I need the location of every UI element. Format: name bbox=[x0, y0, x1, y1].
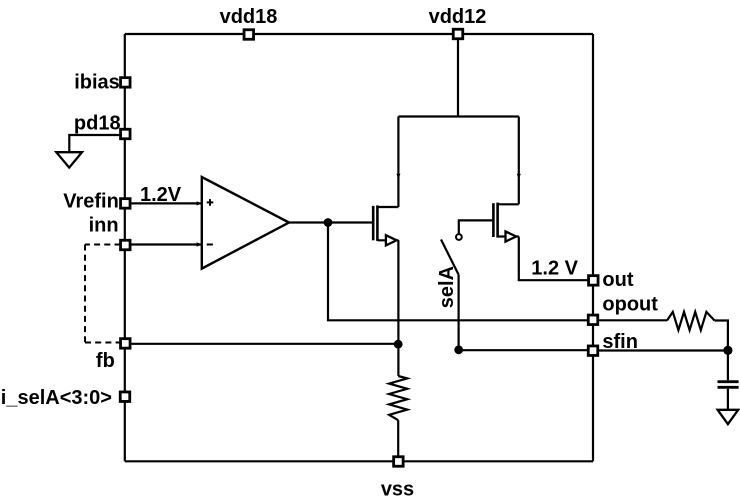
svg-text:fb: fb bbox=[96, 350, 115, 372]
wire R2 to RC node bbox=[715, 321, 728, 381]
pin vdd12 bbox=[453, 29, 463, 39]
wire inn to op-amp - bbox=[125, 243, 202, 245]
dashed feedback wire inn segment bbox=[85, 244, 121, 246]
pin fb bbox=[121, 339, 131, 349]
wire M1 source down to resistor bbox=[397, 240, 399, 376]
svg-text:selA: selA bbox=[436, 266, 458, 308]
wire R1 bottom to vss bbox=[397, 420, 399, 461]
wire top rail vdd18/vdd12 bbox=[125, 33, 593, 35]
wire mirror top rail bbox=[398, 115, 518, 117]
resistor R2 (horizontal) bbox=[667, 312, 715, 330]
pin Vrefin bbox=[121, 199, 131, 209]
wire opout pin to R2 bbox=[593, 319, 667, 321]
arrowhead at op-amp + input bbox=[197, 201, 202, 205]
wire sfin junction to sfin pin bbox=[459, 349, 593, 351]
pin vdd18 bbox=[244, 30, 254, 40]
wire fb pin to junction bbox=[125, 343, 398, 345]
svg-text:out: out bbox=[602, 269, 633, 291]
svg-text:vss: vss bbox=[381, 478, 414, 500]
op-amp U1 bbox=[202, 177, 289, 269]
M2 drain current arrowhead bbox=[517, 174, 521, 179]
svg-text:pd18: pd18 bbox=[74, 113, 121, 135]
node RC junction bbox=[723, 346, 732, 355]
transistor M1 (left NMOS) bbox=[373, 205, 398, 245]
wire op-amp output to opout pin bbox=[328, 223, 593, 321]
svg-text:i_selA<3:0>: i_selA<3:0> bbox=[1, 387, 112, 409]
svg-text:vdd18: vdd18 bbox=[220, 6, 278, 28]
dashed feedback wire vertical segment bbox=[84, 245, 86, 343]
node A op-amp output junction bbox=[324, 218, 333, 227]
resistor R1 (vertical) bbox=[389, 376, 407, 420]
switch selA blade bbox=[441, 240, 459, 275]
pin opout bbox=[588, 315, 598, 325]
wire M1 drain riser bbox=[397, 117, 399, 208]
svg-text:1.2V: 1.2V bbox=[140, 184, 182, 206]
pin pd18 bbox=[121, 129, 131, 139]
pin inn bbox=[121, 240, 131, 250]
wire C1 to ground bbox=[727, 389, 729, 410]
arrowhead at op-amp - input bbox=[197, 242, 202, 246]
wire switch to sfin junction bbox=[458, 275, 460, 350]
pin i_selA bbox=[120, 392, 130, 402]
pin ibias bbox=[121, 78, 131, 88]
ground symbol at C1 bbox=[718, 410, 739, 424]
svg-text:inn: inn bbox=[89, 215, 119, 237]
wire op-amp output to M1 gate bbox=[289, 221, 372, 223]
pin vss bbox=[394, 457, 404, 467]
wire Vrefin to op-amp + bbox=[125, 202, 202, 204]
svg-text:opout: opout bbox=[602, 294, 658, 316]
wire vdd12 stem bbox=[457, 34, 459, 117]
pin sfin bbox=[588, 346, 598, 356]
wire sfin pin to RC node bbox=[593, 349, 728, 351]
pin out bbox=[589, 276, 599, 286]
capacitor C1 bbox=[718, 382, 739, 388]
wire pd18 to ground bbox=[69, 135, 125, 152]
svg-text:sfin: sfin bbox=[602, 331, 638, 353]
wire left border bbox=[124, 34, 126, 461]
wire M2 gate to switch terminal bbox=[459, 220, 494, 233]
svg-text:1.2 V: 1.2 V bbox=[531, 258, 578, 280]
svg-text:ibias: ibias bbox=[74, 72, 120, 94]
svg-text:vdd12: vdd12 bbox=[429, 6, 487, 28]
wire bottom rail vss bbox=[125, 460, 593, 462]
wire M2 source to out pin bbox=[519, 237, 593, 281]
svg-text:Vrefin: Vrefin bbox=[63, 191, 119, 213]
ground symbol at pd18 bbox=[56, 152, 82, 167]
wire M2 drain riser bbox=[518, 117, 520, 205]
switch selA terminal circle bbox=[456, 234, 462, 240]
node sfin junction bbox=[454, 345, 463, 354]
node fb junction bbox=[394, 340, 403, 349]
transistor M2 (right NMOS) bbox=[493, 203, 518, 242]
wire right border bbox=[592, 34, 594, 461]
M1 drain current arrowhead bbox=[396, 174, 400, 179]
dashed feedback wire fb segment bbox=[85, 342, 121, 344]
